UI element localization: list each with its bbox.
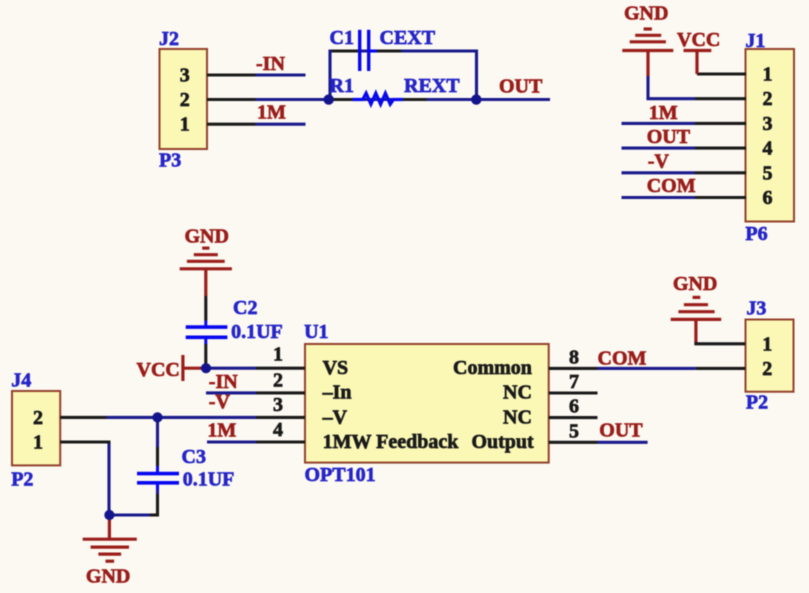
svg-text:-V: -V	[209, 391, 231, 413]
svg-text:1: 1	[273, 344, 283, 366]
svg-text:2: 2	[180, 89, 190, 111]
svg-text:1M: 1M	[649, 102, 678, 124]
svg-text:GND: GND	[185, 226, 229, 248]
svg-text:GND: GND	[86, 565, 130, 587]
svg-text:C3: C3	[182, 446, 206, 468]
svg-text:1: 1	[762, 333, 772, 355]
svg-text:6: 6	[763, 187, 773, 209]
svg-text:J3: J3	[746, 297, 766, 319]
svg-text:Output: Output	[471, 431, 534, 453]
svg-text:0.1UF: 0.1UF	[231, 321, 283, 343]
svg-text:7: 7	[569, 371, 579, 393]
svg-text:C1: C1	[330, 27, 354, 49]
svg-text:1M: 1M	[257, 102, 286, 124]
svg-text:-V: -V	[648, 151, 670, 173]
svg-text:C2: C2	[233, 297, 257, 319]
svg-text:COM: COM	[598, 347, 647, 369]
svg-text:R1: R1	[330, 75, 354, 97]
svg-text:5: 5	[569, 420, 579, 442]
svg-text:CEXT: CEXT	[380, 27, 436, 49]
svg-text:P6: P6	[745, 223, 767, 245]
svg-text:2: 2	[762, 358, 772, 380]
svg-text:0.1UF: 0.1UF	[183, 468, 235, 490]
svg-text:2: 2	[273, 370, 283, 392]
svg-text:2: 2	[33, 407, 43, 429]
svg-text:4: 4	[273, 419, 283, 441]
svg-text:2: 2	[763, 88, 773, 110]
svg-text:1: 1	[763, 64, 773, 86]
svg-text:U1: U1	[304, 321, 328, 343]
svg-text:J4: J4	[11, 370, 31, 392]
svg-text:P2: P2	[746, 392, 768, 414]
svg-text:OUT: OUT	[499, 76, 543, 98]
svg-text:NC: NC	[503, 382, 532, 404]
svg-text:VCC: VCC	[137, 359, 180, 381]
svg-text:VS: VS	[323, 357, 349, 379]
svg-text:1M: 1M	[207, 420, 236, 442]
svg-text:-IN: -IN	[209, 371, 238, 393]
svg-text:–V: –V	[322, 406, 348, 428]
svg-text:GND: GND	[673, 273, 717, 295]
svg-text:J1: J1	[745, 30, 765, 52]
svg-text:5: 5	[763, 162, 773, 184]
svg-text:3: 3	[763, 113, 773, 135]
svg-text:REXT: REXT	[404, 75, 460, 97]
svg-text:OPT101: OPT101	[305, 464, 376, 486]
svg-text:OUT: OUT	[599, 420, 643, 442]
svg-text:NC: NC	[503, 406, 532, 428]
svg-text:VCC: VCC	[677, 29, 720, 51]
svg-text:1: 1	[33, 432, 43, 454]
svg-text:4: 4	[763, 138, 773, 160]
svg-text:J2: J2	[159, 28, 179, 50]
svg-text:8: 8	[569, 346, 579, 368]
svg-text:3: 3	[180, 65, 190, 87]
svg-text:6: 6	[569, 396, 579, 418]
svg-text:P2: P2	[11, 469, 33, 491]
svg-text:OUT: OUT	[647, 126, 691, 148]
svg-text:3: 3	[273, 394, 283, 416]
svg-text:1MW Feedback: 1MW Feedback	[323, 431, 460, 453]
svg-text:-IN: -IN	[256, 53, 285, 75]
svg-text:Common: Common	[453, 357, 532, 379]
svg-text:1: 1	[180, 114, 190, 136]
svg-text:GND: GND	[624, 3, 668, 25]
svg-text:–In: –In	[322, 382, 352, 404]
svg-text:COM: COM	[647, 175, 696, 197]
svg-text:P3: P3	[159, 150, 181, 172]
